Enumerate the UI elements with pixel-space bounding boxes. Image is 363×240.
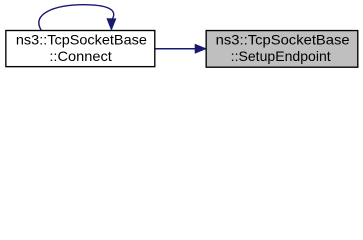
svg-text:::Connect: ::Connect [49, 48, 112, 64]
svg-text:ns3::TcpSocketBase: ns3::TcpSocketBase [216, 31, 350, 47]
node ns3::TcpSocketBase::Connect [6, 31, 155, 67]
edge arrowhead [195, 44, 206, 53]
self-loop edge on ns3::TcpSocketBase::Connect [39, 5, 116, 31]
svg-text:ns3::TcpSocketBase: ns3::TcpSocketBase [16, 31, 147, 47]
svg-text:::SetupEndpoint: ::SetupEndpoint [231, 48, 331, 64]
self-loop arrowhead [107, 19, 116, 30]
node ns3::TcpSocketBase::SetupEndpoint (current, filled grey) [206, 31, 358, 68]
edge Connect -> SetupEndpoint [155, 44, 205, 53]
